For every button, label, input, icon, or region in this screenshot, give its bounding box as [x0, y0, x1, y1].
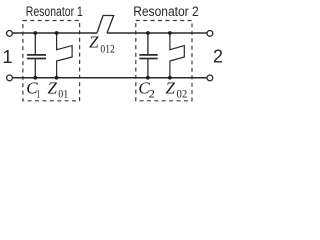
node C1 top junction: [33, 31, 37, 35]
wire bottom rail: [13, 77, 207, 79]
node Z02 bottom junction: [168, 76, 172, 80]
svg-text:Resonator 2: Resonator 2: [133, 4, 199, 19]
wire top rail right segment: [107, 32, 207, 34]
capacitor C1: [27, 33, 46, 78]
svg-text:1: 1: [3, 47, 13, 67]
svg-text:2: 2: [213, 47, 223, 67]
svg-text:Z: Z: [89, 33, 99, 52]
port 2 bottom terminal: [207, 75, 213, 81]
resonator 1 dashed box: [23, 21, 80, 101]
port 1 top terminal: [7, 31, 13, 37]
node C2 top junction: [146, 31, 150, 35]
wire top rail left segment: [13, 32, 97, 34]
port 2 top terminal: [207, 31, 213, 37]
svg-text:01: 01: [58, 88, 68, 100]
node Z02 top junction: [168, 31, 172, 35]
node C1 bottom junction: [33, 76, 37, 80]
svg-text:012: 012: [100, 44, 115, 56]
svg-text:02: 02: [177, 88, 188, 100]
transmission line Z012 jog symbol: [97, 16, 114, 34]
svg-text:Z: Z: [166, 79, 176, 98]
stub Z01: [57, 33, 73, 78]
node Z01 top junction: [55, 31, 59, 35]
svg-text:Z: Z: [48, 79, 58, 98]
svg-text:1: 1: [36, 88, 40, 100]
stub Z02: [170, 33, 184, 78]
port 1 bottom terminal: [7, 75, 13, 81]
node Z01 bottom junction: [55, 76, 59, 80]
node C2 bottom junction: [146, 76, 150, 80]
resonator 2 dashed box: [136, 21, 192, 101]
capacitor C2: [139, 33, 157, 78]
svg-text:2: 2: [149, 88, 156, 100]
svg-text:Resonator 1: Resonator 1: [26, 4, 83, 19]
